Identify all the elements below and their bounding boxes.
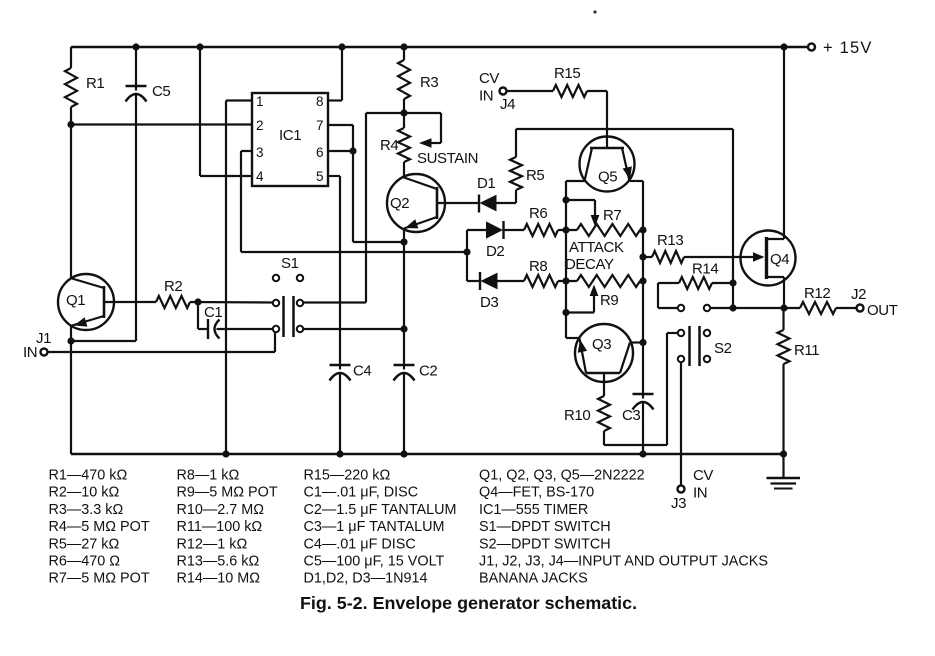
- junction rail / C4: [336, 450, 343, 457]
- svg-text:Q2: Q2: [390, 195, 409, 212]
- junction R8/R9 left: [562, 277, 569, 284]
- wire: right riser down to output line: [732, 129, 734, 308]
- capacitor C4: [330, 364, 351, 366]
- junction riser / output line: [729, 304, 736, 311]
- resistor R1: [65, 68, 77, 107]
- wire: pin5 to C4: [328, 175, 340, 177]
- svg-text:SUSTAIN: SUSTAIN: [417, 150, 478, 167]
- svg-text:3: 3: [256, 145, 264, 160]
- svg-text:R14: R14: [692, 261, 718, 278]
- svg-text:7: 7: [316, 118, 324, 133]
- svg-text:IN: IN: [479, 88, 493, 105]
- wire: pin8 to rail: [328, 99, 342, 101]
- svg-text:C1: C1: [204, 304, 222, 321]
- svg-text:CV: CV: [479, 70, 499, 87]
- svg-text:+ 15V: + 15V: [823, 39, 873, 57]
- wire: R9 right end to riser: [640, 280, 643, 282]
- junction Q2 emitter / pin7 line: [400, 238, 407, 245]
- svg-text:Q5: Q5: [598, 169, 617, 186]
- svg-text:5: 5: [316, 169, 324, 184]
- diode D1: [478, 195, 480, 213]
- resistor R11: [782, 308, 784, 330]
- wire: Q5 emitter to right riser: [630, 180, 644, 182]
- svg-text:R3—3.3 kΩ: R3—3.3 kΩ: [49, 502, 124, 518]
- wire: rail down to R1: [70, 47, 72, 68]
- svg-text:R11—100 kΩ: R11—100 kΩ: [177, 519, 263, 535]
- junction R6/R7: [562, 226, 569, 233]
- resistor R14: [679, 277, 712, 289]
- svg-text:S1—DPDT SWITCH: S1—DPDT SWITCH: [479, 519, 611, 535]
- svg-text:BANANA JACKS: BANANA JACKS: [479, 571, 588, 587]
- wire: C1 to S1 bottom-left contact: [217, 328, 273, 330]
- wire: D1 anode to R5: [496, 202, 516, 204]
- svg-text:DECAY: DECAY: [565, 256, 614, 273]
- junction R2 / C1: [194, 298, 201, 305]
- wire: bypass contact to output line: [710, 307, 800, 309]
- transistor Q5 (2N2222): [580, 137, 635, 192]
- wire: pin3 output riser: [241, 150, 252, 152]
- svg-text:R14—10 MΩ: R14—10 MΩ: [177, 571, 261, 587]
- junction rail / pin1 riser: [222, 450, 229, 457]
- capacitor C3: [633, 393, 654, 395]
- wire: pin6 tie to pin7 riser: [328, 150, 353, 152]
- op-amp/IC U1: IC1 555 timer body: [252, 93, 328, 186]
- wire: junction to S1 riser: [366, 112, 404, 114]
- capacitor C2: [394, 364, 415, 366]
- wire: +15V top supply rail: [71, 46, 808, 48]
- svg-text:C4—.01 μF DISC: C4—.01 μF DISC: [304, 536, 416, 552]
- wire: J1 to S1 bottom-left contact riser: [48, 351, 276, 353]
- transistor Q2 (2N2222): [387, 174, 445, 232]
- diode D2: [467, 229, 486, 231]
- svg-text:S2—DPDT SWITCH: S2—DPDT SWITCH: [479, 536, 611, 552]
- svg-text:R12: R12: [804, 285, 830, 302]
- svg-text:ATTACK: ATTACK: [569, 239, 624, 256]
- resistor R8: [524, 275, 558, 287]
- wire: S2 upper-left to R10 riser: [667, 332, 678, 334]
- wire: C5 to Q1 emitter node: [71, 340, 136, 342]
- svg-text:S2: S2: [714, 340, 732, 357]
- svg-text:R4—5 MΩ POT: R4—5 MΩ POT: [49, 519, 150, 535]
- svg-text:C5: C5: [152, 83, 170, 100]
- junction R9 right: [639, 277, 646, 284]
- junction Q3 collector / C3 riser: [639, 339, 646, 346]
- node J1 input jack: [41, 349, 48, 356]
- svg-text:2: 2: [256, 118, 264, 133]
- junction on rail at C5: [132, 43, 139, 50]
- svg-text:J3: J3: [671, 495, 686, 512]
- junction R13 left: [639, 253, 646, 260]
- svg-text:4: 4: [256, 169, 264, 184]
- junction R14 / riser: [729, 279, 736, 286]
- diode D3: [467, 280, 480, 282]
- svg-text:R3: R3: [420, 74, 438, 91]
- svg-text:R8: R8: [529, 258, 547, 275]
- node: +15V terminal: [808, 44, 815, 51]
- wire: R2 to S1 middle-left contact: [190, 301, 273, 304]
- transistor Q1 (2N2222): [58, 274, 114, 330]
- wire: R7 right end to riser: [640, 229, 643, 231]
- svg-text:R13—5.6 kΩ: R13—5.6 kΩ: [177, 554, 260, 570]
- svg-text:R5: R5: [526, 167, 544, 184]
- svg-text:IN: IN: [693, 485, 707, 502]
- junction Q4 source / output: [780, 304, 787, 311]
- svg-text:R1: R1: [86, 75, 104, 92]
- scan speck artifact: [593, 10, 596, 13]
- svg-text:C3: C3: [622, 407, 640, 424]
- wire: pin2 line to IC1: [71, 123, 252, 125]
- svg-text:C2: C2: [419, 363, 437, 380]
- capacitor C1: [207, 319, 209, 339]
- svg-text:CV: CV: [693, 467, 713, 484]
- svg-text:Q4: Q4: [770, 251, 789, 268]
- svg-text:R12—1 kΩ: R12—1 kΩ: [177, 536, 248, 552]
- junction pin3 line end: [463, 248, 470, 255]
- svg-text:J2: J2: [851, 286, 866, 303]
- svg-text:8: 8: [316, 94, 324, 109]
- junction rail / C3: [639, 450, 646, 457]
- svg-text:R15: R15: [554, 65, 580, 82]
- svg-text:J4: J4: [500, 96, 515, 113]
- junction Q1 emitter / C5: [67, 337, 74, 344]
- wire: J4 to R15: [507, 90, 554, 92]
- R7 wiper loop: [566, 199, 595, 201]
- capacitor C5: [135, 47, 137, 86]
- wire: Q1 collector riser handled above; emitter riser down: [70, 326, 72, 455]
- junction rail / R11: [780, 450, 787, 457]
- svg-text:D1,D2, D3—1N914: D1,D2, D3—1N914: [304, 571, 428, 587]
- node J3 CV input jack: [678, 486, 685, 493]
- svg-text:Q1: Q1: [66, 292, 85, 309]
- node J4 CV input jack: [500, 88, 507, 95]
- svg-text:J1: J1: [36, 330, 51, 347]
- svg-text:R2: R2: [164, 278, 182, 295]
- wire: rail to R3: [403, 47, 405, 60]
- wire: left riser (Q5 collector to Q3 emitter): [565, 181, 567, 338]
- wire: C5 bottom riser: [135, 94, 137, 341]
- svg-text:R6: R6: [529, 205, 547, 222]
- R9 wiper loop: [566, 311, 594, 313]
- resistor R12: [800, 302, 836, 314]
- junction R3/R4: [400, 109, 407, 116]
- svg-text:Q4—FET, BS-170: Q4—FET, BS-170: [479, 485, 594, 501]
- svg-text:IC1: IC1: [279, 127, 301, 144]
- resistor R5: [515, 190, 517, 203]
- svg-text:R7—5 MΩ POT: R7—5 MΩ POT: [49, 571, 150, 587]
- resistor R6: [524, 224, 558, 236]
- svg-text:R13: R13: [657, 232, 683, 249]
- svg-text:R9: R9: [600, 292, 618, 309]
- svg-text:S1: S1: [281, 255, 299, 272]
- wire: riser to R13: [643, 256, 652, 258]
- svg-text:IN: IN: [23, 344, 37, 361]
- wire: R8 to R9: [558, 280, 577, 282]
- svg-text:R5—27 kΩ: R5—27 kΩ: [49, 536, 120, 552]
- wire: R14 right to riser: [712, 282, 733, 284]
- svg-text:C5—100 μF, 15 VOLT: C5—100 μF, 15 VOLT: [304, 554, 445, 570]
- node J2 output jack: [857, 305, 864, 312]
- junction on rail at R3: [400, 43, 407, 50]
- wire: Q2 base to D1: [437, 202, 479, 204]
- wire: R13 to Q4 gate: [684, 256, 754, 258]
- svg-text:R9—5 MΩ POT: R9—5 MΩ POT: [177, 485, 278, 501]
- svg-text:1: 1: [256, 94, 264, 109]
- junction on rail at pin4 riser: [196, 43, 203, 50]
- wire: Q5 collector to left riser: [566, 180, 585, 182]
- wire: Q1 base to R2: [104, 301, 156, 303]
- wire: S1 bottom-right to C2 node: [304, 328, 405, 330]
- svg-text:D2: D2: [486, 243, 504, 260]
- junction rail / C2: [400, 450, 407, 457]
- svg-text:IC1—555 TIMER: IC1—555 TIMER: [479, 502, 588, 518]
- resistor R15: [553, 85, 587, 97]
- wire: R1 to Q1 collector: [70, 107, 72, 278]
- ground symbol: [782, 454, 784, 478]
- svg-text:Fig. 5-2. Envelope generator s: Fig. 5-2. Envelope generator schematic.: [300, 593, 637, 613]
- svg-text:R1—470 kΩ: R1—470 kΩ: [49, 468, 128, 484]
- resistor R13: [652, 251, 684, 263]
- wire: C1 branch down: [197, 302, 199, 329]
- svg-text:R7: R7: [603, 207, 621, 224]
- junction R7 right: [639, 226, 646, 233]
- wire: R12 to J2: [836, 307, 857, 309]
- junction pin6/pin7: [349, 147, 356, 154]
- svg-text:C4: C4: [353, 363, 371, 380]
- svg-text:R10—2.7 MΩ: R10—2.7 MΩ: [177, 502, 265, 518]
- potentiometer R4 (SUSTAIN) wiper loop: [404, 112, 441, 114]
- svg-text:C1—.01 μF, DISC: C1—.01 μF, DISC: [304, 485, 419, 501]
- svg-text:R11: R11: [794, 342, 819, 359]
- svg-text:C2—1.5 μF TANTALUM: C2—1.5 μF TANTALUM: [304, 502, 457, 518]
- svg-text:C3—1 μF TANTALUM: C3—1 μF TANTALUM: [304, 519, 445, 535]
- wire: R14 left loop down to bypass contact: [658, 282, 679, 284]
- wire: Q2 emitter riser down to C2: [403, 229, 405, 366]
- transistor Q3 (2N2222): [575, 324, 633, 382]
- wire: Q3 collector to right riser: [630, 341, 643, 343]
- wire: bottom ground rail: [71, 453, 784, 455]
- wire: D2 to R6: [504, 229, 525, 231]
- resistor R4 body: [398, 128, 410, 162]
- wire: pin7 riser down to Q2 emitter line: [328, 124, 353, 126]
- svg-text:R2—10 kΩ: R2—10 kΩ: [49, 485, 120, 501]
- svg-text:OUT: OUT: [867, 302, 898, 319]
- svg-text:R8—1 kΩ: R8—1 kΩ: [177, 468, 240, 484]
- junction node R1/pin2 line: [67, 121, 74, 128]
- transistor Q4 (FET BS-170): [741, 231, 796, 286]
- wire: R10 bottom across to S2 riser: [603, 431, 605, 445]
- wire: pin1 to ground riser: [226, 99, 252, 101]
- potentiometer R9 (DECAY) body: [577, 275, 640, 287]
- wire: Q3 base down to R10: [603, 373, 605, 396]
- wire: S2 lower-left down to J3: [680, 363, 682, 486]
- svg-text:Q1, Q2, Q3, Q5—2N2222: Q1, Q2, Q3, Q5—2N2222: [479, 468, 645, 484]
- wire: right riser (Q5 emitter down to C3): [642, 181, 644, 394]
- svg-text:D3: D3: [480, 294, 498, 311]
- junction R7 wiper / riser: [562, 196, 569, 203]
- switch S2 bypass contacts: [678, 305, 684, 311]
- svg-text:J1, J2, J3, J4—INPUT AND OUTPU: J1, J2, J3, J4—INPUT AND OUTPUT JACKS: [479, 554, 768, 570]
- wire: S1 middle-right to R3/R4 junction riser: [304, 301, 367, 303]
- svg-text:Q3: Q3: [592, 336, 611, 353]
- potentiometer R7 (ATTACK) body: [577, 224, 640, 236]
- wire: R15 to Q5 base: [587, 90, 607, 92]
- wire: pin3 node riser for D2/D3: [466, 230, 468, 281]
- svg-text:D1: D1: [477, 175, 495, 192]
- wire: Q3 emitter line to left riser: [566, 337, 580, 339]
- junction on rail at pin8 riser: [338, 43, 345, 50]
- svg-text:6: 6: [316, 145, 324, 160]
- svg-text:R4: R4: [380, 137, 398, 154]
- junction Q2 emitter riser / S1 line: [400, 325, 407, 332]
- svg-text:R6—470 Ω: R6—470 Ω: [49, 554, 121, 570]
- resistor R10: [598, 396, 610, 431]
- wire: D3 to R8: [497, 280, 524, 282]
- wire: R5 top line across to right riser: [516, 128, 733, 130]
- resistor R3: [398, 60, 410, 99]
- junction on rail at Q4 drain: [780, 43, 787, 50]
- resistor R2: [156, 296, 190, 308]
- junction R9 wiper / riser: [562, 309, 569, 316]
- wire: R6 to R7: [558, 229, 577, 231]
- svg-text:R15—220 kΩ: R15—220 kΩ: [304, 468, 391, 484]
- svg-text:R10: R10: [564, 407, 590, 424]
- wire: pin4 to rail: [199, 47, 201, 176]
